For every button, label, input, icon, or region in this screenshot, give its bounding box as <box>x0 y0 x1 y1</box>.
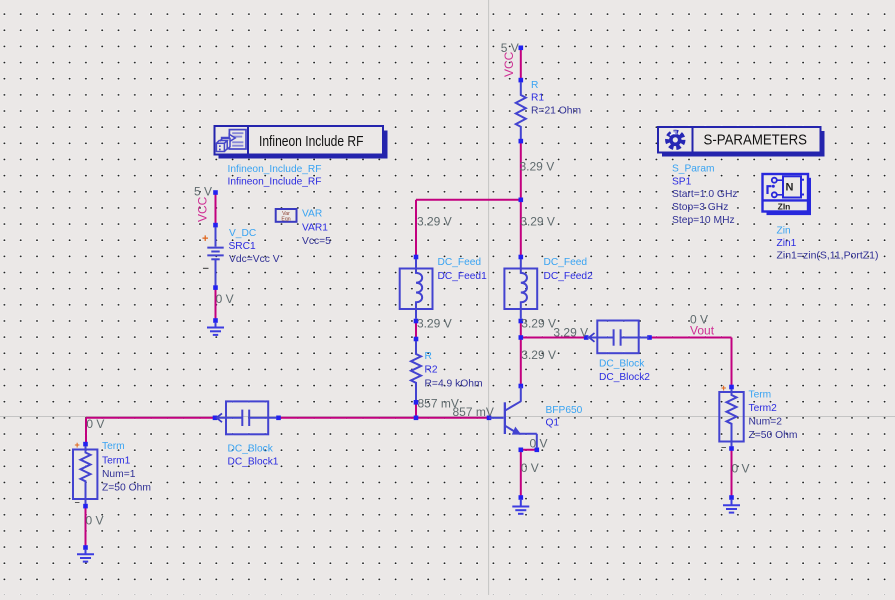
pin DC_Feed1 bottom <box>414 319 419 324</box>
svg-text:DC_Feed: DC_Feed <box>438 257 482 268</box>
svg-text:5 V: 5 V <box>194 184 212 198</box>
wire VCC source top <box>215 193 217 226</box>
svg-text:R1: R1 <box>531 93 544 104</box>
node emitter loop left <box>519 448 524 453</box>
Infineon include icon (page with arrow and die) <box>216 130 246 152</box>
svg-text:+: + <box>75 440 80 450</box>
ground under Q1 emitter <box>512 499 529 514</box>
label DC_Feed2 <box>544 257 594 282</box>
junction collector rail / feed branch <box>519 198 524 203</box>
svg-text:0 V: 0 V <box>732 461 750 475</box>
svg-text:Start=1.0 GHz: Start=1.0 GHz <box>672 189 738 200</box>
svg-text:+: + <box>202 233 208 245</box>
svg-text:Zin1=zin(S,11,PortZ1): Zin1=zin(S,11,PortZ1) <box>777 251 879 262</box>
svg-text:3.29 V: 3.29 V <box>521 317 556 331</box>
S-parameters gear icon <box>668 131 684 148</box>
svg-text:R: R <box>425 351 432 362</box>
svg-text:Z=50 Ohm: Z=50 Ohm <box>749 430 798 441</box>
pin DC_Block1 right <box>276 416 281 421</box>
label DC_Block2 <box>599 358 650 383</box>
svg-text:Term: Term <box>749 390 772 401</box>
svg-text:SRC1: SRC1 <box>229 241 257 252</box>
svg-text:857 mV: 857 mV <box>453 405 494 419</box>
svg-text:Eqn: Eqn <box>281 217 290 223</box>
svg-text:R=4.9 kOhm: R=4.9 kOhm <box>425 379 483 390</box>
port Term2 <box>719 389 743 447</box>
wire Term1 bottom to ground <box>85 506 87 548</box>
svg-text:Term: Term <box>102 441 125 452</box>
svg-text:0 V: 0 V <box>690 312 708 326</box>
resistor R1 <box>516 82 526 139</box>
svg-text:Step=10 MHz: Step=10 MHz <box>672 215 735 226</box>
svg-text:Zin: Zin <box>777 226 791 237</box>
capacitor DC_Block1 <box>217 401 277 434</box>
wire DC_Feed2 bottom to collector <box>520 321 522 386</box>
svg-text:3.29 V: 3.29 V <box>521 348 556 362</box>
wire junction to left feed branch (horizontal) <box>416 199 521 201</box>
svg-text:+: + <box>721 383 726 393</box>
wire DC_Block2 right to output corner <box>650 337 732 339</box>
node VCC top of SRC1 <box>213 190 218 195</box>
resistor R2 <box>411 341 421 400</box>
label VAR1 <box>302 209 331 248</box>
pin Term1 bottom <box>83 504 88 509</box>
svg-text:3.29 V: 3.29 V <box>417 316 452 330</box>
inductor DC_Feed2 <box>504 259 537 319</box>
svg-text:Infineon Include RF: Infineon Include RF <box>259 134 364 150</box>
svg-text:0 V: 0 V <box>530 436 548 450</box>
svg-text:−: − <box>75 498 80 508</box>
svg-text:BFP650: BFP650 <box>546 405 583 416</box>
variable block VAR1 box <box>276 209 297 223</box>
svg-text:V_DC: V_DC <box>229 228 256 239</box>
pin Term2 bottom <box>729 446 734 451</box>
inductor DC_Feed1 <box>400 259 433 319</box>
Zin measurement block <box>763 174 812 215</box>
pin SRC1 minus <box>213 285 218 290</box>
pin DC_Feed2 bottom <box>519 319 524 324</box>
pin DC_Block1 left <box>213 416 218 421</box>
capacitor DC_Block2 <box>587 321 649 354</box>
axis vertical line <box>488 0 490 595</box>
wire Term1 top corner up <box>85 418 87 444</box>
label SRC1 <box>229 228 280 265</box>
pin DC_Feed2 top <box>519 255 524 260</box>
svg-text:0 V: 0 V <box>216 292 234 306</box>
svg-text:Infineon_Include_RF: Infineon_Include_RF <box>228 177 322 188</box>
svg-text:VAR: VAR <box>302 209 322 220</box>
svg-text:3.29 V: 3.29 V <box>520 215 555 229</box>
label Term2 <box>749 390 798 442</box>
axis horizontal line <box>0 416 895 418</box>
label SP1 <box>672 164 738 227</box>
svg-text:VCC: VCC <box>502 51 516 77</box>
svg-text:Z=50 Ohm: Z=50 Ohm <box>102 483 151 494</box>
svg-text:Num=2: Num=2 <box>749 417 783 428</box>
pin SRC1 plus <box>213 223 218 228</box>
S-PARAMETERS block <box>658 127 825 157</box>
svg-text:R2: R2 <box>425 365 438 376</box>
pin DC_Block2 right <box>647 335 652 340</box>
pin Term1 top <box>83 442 88 447</box>
svg-text:R=21 Ohm: R=21 Ohm <box>531 106 581 117</box>
ground under Term1 <box>77 549 94 562</box>
svg-text:3.29 V: 3.29 V <box>553 325 588 339</box>
svg-text:DC_Block: DC_Block <box>599 358 645 369</box>
svg-text:Infineon_Include_RF: Infineon_Include_RF <box>228 164 322 175</box>
label DC_Block1 <box>228 444 279 468</box>
node base of Q1 <box>487 416 492 421</box>
svg-text:S_Param: S_Param <box>672 164 714 175</box>
svg-text:DC_Block2: DC_Block2 <box>599 372 650 383</box>
svg-text:VAR1: VAR1 <box>302 223 328 234</box>
wire collector node to DC_Block2 (horizontal) <box>521 337 586 339</box>
pin R2 top <box>414 337 419 342</box>
svg-text:Zin1: Zin1 <box>777 238 797 249</box>
svg-text:Stop=3 GHz: Stop=3 GHz <box>672 202 728 213</box>
pin DC_Block2 left <box>584 335 589 340</box>
label R2 <box>425 351 483 390</box>
svg-text:Term2: Term2 <box>749 403 778 414</box>
svg-text:3.29 V: 3.29 V <box>417 215 452 229</box>
pin Q1 collector <box>519 384 524 389</box>
pin Term2 top <box>729 385 734 390</box>
wire input rail Term1 to DC_Block1 <box>86 417 215 419</box>
node VCC top of R1 <box>519 46 524 51</box>
svg-text:DC_Feed1: DC_Feed1 <box>438 271 488 282</box>
dc source V_DC SRC1 <box>207 227 223 286</box>
wire R1 bottom to collector rail junction <box>520 141 522 257</box>
svg-text:DC_Feed: DC_Feed <box>544 257 588 268</box>
label R1 <box>531 80 581 117</box>
svg-text:0 V: 0 V <box>86 417 104 431</box>
Infineon Include RF block <box>215 126 388 159</box>
junction R2 on input rail <box>414 416 419 421</box>
svg-text:VCC: VCC <box>195 196 209 222</box>
wire input rail DC_Block1 to base node <box>279 417 490 419</box>
wire Term2 bottom to ground <box>731 449 733 498</box>
node emitter loop right <box>535 448 540 453</box>
svg-text:S-PARAMETERS: S-PARAMETERS <box>704 133 808 149</box>
svg-text:N: N <box>786 182 794 194</box>
svg-text:DC_Block1: DC_Block1 <box>228 457 279 468</box>
wire R2 bottom to base rail <box>415 404 417 418</box>
node SRC1 ground <box>213 318 218 323</box>
svg-text:SP1: SP1 <box>672 176 692 187</box>
wire output corner down to Term2 <box>731 338 733 388</box>
label Zin1 <box>777 226 879 262</box>
junction collector to DC_Block2 <box>519 335 524 340</box>
svg-text:−: − <box>203 263 209 275</box>
label DC_Feed1 <box>438 257 488 282</box>
wire DC_Feed1 bottom to R2 top <box>415 321 417 339</box>
pin R1 top <box>519 78 524 83</box>
ground under Term2 <box>723 499 740 513</box>
svg-text:−: − <box>721 443 726 453</box>
svg-text:Vdc=Vcc V: Vdc=Vcc V <box>229 254 280 265</box>
node Q1 ground <box>519 495 524 500</box>
svg-text:ZIn: ZIn <box>778 202 791 212</box>
wire end arrow at DC_Block2 left <box>589 333 595 342</box>
wire emitter node down to ground <box>520 450 522 498</box>
transistor Q1 (BFP650 npn) <box>489 387 537 449</box>
svg-text:R: R <box>531 80 538 91</box>
svg-text:5 V: 5 V <box>501 41 519 55</box>
svg-text:Q1: Q1 <box>546 418 560 429</box>
svg-text:DC_Block: DC_Block <box>228 444 274 455</box>
label Q1 <box>546 405 583 429</box>
pin R1 bottom <box>519 139 524 144</box>
wire SRC1 bottom to ground <box>215 288 217 321</box>
svg-text:Num=1: Num=1 <box>102 469 136 480</box>
wire end arrow at DC_Block1 left <box>217 413 223 422</box>
wire emitter loop bottom (horizontal) <box>521 449 537 451</box>
port Term1 <box>73 446 97 504</box>
svg-text:3.29 V: 3.29 V <box>520 160 555 174</box>
label Term1 <box>102 441 151 494</box>
svg-text:0 V: 0 V <box>86 514 104 528</box>
wire VCC top to R1 <box>520 48 522 81</box>
node Term1 ground <box>83 545 88 550</box>
pin R2 bottom <box>414 400 419 405</box>
pin DC_Feed1 top <box>414 255 419 260</box>
svg-text:Vcc=5: Vcc=5 <box>302 236 331 247</box>
ground under SRC1 <box>207 322 224 335</box>
wire left feed branch down to DC_Feed1 <box>415 200 417 257</box>
svg-text:0 V: 0 V <box>521 461 539 475</box>
svg-text:DC_Feed2: DC_Feed2 <box>544 271 594 282</box>
svg-text:Term1: Term1 <box>102 456 131 467</box>
node Term2 ground <box>729 495 734 500</box>
